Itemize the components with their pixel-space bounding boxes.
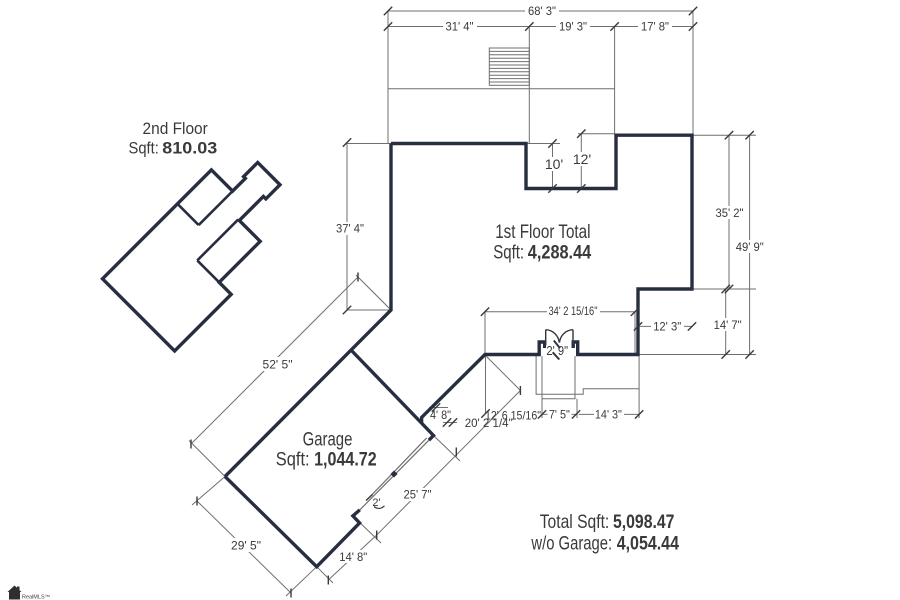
french door 2' 9" ticks (over label) bbox=[554, 341, 560, 349]
label 35' 2" bbox=[714, 206, 745, 219]
tick 14' 8" bbox=[327, 576, 329, 585]
dimension 37' 4" line bbox=[346, 143, 348, 311]
dimension 12' line bbox=[580, 134, 582, 189]
svg-text:19' 3": 19' 3" bbox=[559, 20, 587, 34]
garage door: thin double line bbox=[360, 438, 429, 510]
extension line x=529 through stairs bbox=[528, 27, 530, 144]
french door leaves and swing arcs bbox=[546, 330, 573, 344]
extension x=485.5 below wall bbox=[485, 355, 487, 414]
dimension 10' line bbox=[552, 144, 554, 189]
extension x=577 for 7' 5"/14' 3" bbox=[576, 399, 578, 418]
ticks 14' 3" bbox=[635, 410, 643, 418]
label 7' 5" bbox=[548, 409, 572, 421]
ticks 10' bbox=[548, 139, 556, 147]
interior wall lines bbox=[159, 170, 271, 282]
ticks 37' 4" bbox=[343, 138, 351, 146]
svg-text:4' 8": 4' 8" bbox=[430, 408, 451, 422]
label 25' 7" bbox=[402, 488, 434, 501]
ticks 25' 7" bbox=[455, 448, 457, 457]
label 14' 8" bbox=[338, 550, 370, 563]
extension x=542 for 7' 5" bbox=[541, 399, 543, 418]
label 29' 5" bbox=[228, 538, 264, 552]
extension from garage right corner bbox=[434, 436, 461, 462]
label 31' 4" bbox=[443, 20, 477, 33]
extension line x=614.6 bbox=[614, 27, 616, 134]
dimension 52' 5" line bbox=[191, 277, 358, 444]
ticks 35' 2" bbox=[725, 131, 733, 139]
dimension 14' 7" line bbox=[725, 289, 727, 355]
svg-text:17' 8": 17' 8" bbox=[641, 20, 669, 34]
ticks 29' 5" bbox=[196, 497, 198, 506]
ticks row2 bbox=[384, 22, 392, 30]
ticks 12' bbox=[577, 130, 585, 138]
label 68' 3" bbox=[525, 4, 559, 17]
stairs hatch bbox=[489, 48, 529, 85]
extension y=143.5 for 10' dim bbox=[526, 143, 560, 145]
tick end of x=485.5 ext bbox=[481, 409, 489, 417]
label 14' 7" bbox=[712, 318, 743, 331]
label 34' 2 15/16" bbox=[547, 305, 600, 317]
label 37' 4" bbox=[334, 222, 366, 235]
extension line left x=388 bbox=[387, 11, 389, 144]
label 52' 5" bbox=[258, 357, 296, 371]
svg-text:31' 4": 31' 4" bbox=[446, 20, 474, 34]
extension line right x=693 bbox=[692, 11, 694, 135]
patio outline below doors bbox=[536, 356, 639, 394]
extension 29' 5" lower from garage bottom corner bbox=[286, 567, 317, 596]
extension y=289 right bbox=[692, 288, 756, 290]
dimension 29' 5" line bbox=[197, 501, 291, 593]
ticks 49' 9" bbox=[745, 131, 753, 139]
svg-text:1st Floor Total: 1st Floor Total bbox=[495, 221, 590, 243]
dimension 35' 2" line bbox=[728, 135, 730, 289]
svg-text:RealMLS™: RealMLS™ bbox=[22, 595, 50, 600]
svg-text:Sqft:: Sqft: bbox=[493, 241, 524, 263]
extension y=354.5 right bbox=[638, 354, 756, 356]
ticks 34' 2 15/16" bbox=[481, 308, 489, 316]
svg-text:14' 7": 14' 7" bbox=[714, 318, 742, 332]
roof overhang line y=88.8 bbox=[388, 88, 615, 90]
dimension 49' 9" line bbox=[749, 135, 751, 354]
svg-text:37' 4": 37' 4" bbox=[336, 222, 364, 236]
svg-text:12' 6 15/16": 12' 6 15/16" bbox=[485, 408, 541, 422]
svg-text:35' 2": 35' 2" bbox=[716, 206, 744, 220]
wall: hall/garage shared wall bbox=[352, 351, 434, 441]
walkway below doors bbox=[542, 356, 575, 399]
svg-text:25' 7": 25' 7" bbox=[404, 488, 432, 502]
extension x=485 bbox=[484, 312, 486, 355]
dimension 4' 8" small lines bbox=[429, 407, 448, 409]
wall: garage lower outline bbox=[225, 477, 360, 567]
extension 29' 5" upper from garage left corner bbox=[192, 477, 225, 506]
svg-text:14' 3": 14' 3" bbox=[595, 407, 622, 421]
extension y=143.5 left bbox=[347, 143, 391, 145]
garage door midpoint marker bbox=[390, 470, 397, 477]
svg-text:Garage: Garage bbox=[303, 430, 353, 451]
svg-text:4,054.44: 4,054.44 bbox=[617, 533, 679, 555]
svg-text:12': 12' bbox=[573, 151, 591, 167]
label 19' 3" bbox=[556, 20, 590, 33]
dimension 34' 2 15/16" line bbox=[485, 311, 635, 313]
dimension 12' 6 15/16" diagonal line bbox=[486, 356, 520, 390]
dimension 14' 8" diagonal line bbox=[328, 535, 376, 580]
garage door end tick bbox=[366, 495, 373, 501]
watermark logo bottom left bbox=[8, 586, 51, 600]
ticks 7' 5" bbox=[538, 410, 546, 418]
extension 52' 5" upper from corner bbox=[356, 275, 391, 310]
extension from garage bottom corner bbox=[317, 567, 333, 583]
svg-text:7' 5": 7' 5" bbox=[549, 407, 570, 421]
svg-text:4,288.44: 4,288.44 bbox=[528, 241, 592, 263]
label 10' bbox=[544, 157, 564, 171]
dimension 12' 3" line bbox=[638, 325, 692, 327]
svg-text:w/o Garage:: w/o Garage: bbox=[531, 533, 612, 555]
dimension 25' 7" diagonal line bbox=[377, 391, 521, 536]
label 17' 8" bbox=[638, 20, 672, 33]
svg-text:Total Sqft:: Total Sqft: bbox=[540, 511, 610, 533]
dimension 7' 5" line bbox=[542, 413, 576, 415]
ticks 52' 5" bbox=[357, 273, 359, 282]
wall: 1st floor main outline bbox=[225, 135, 692, 476]
svg-text:810.03: 810.03 bbox=[162, 139, 217, 158]
dimension row 31' 4" / 19' 3" / 17' 8" line bbox=[388, 26, 693, 28]
ticks 4' 8" bbox=[432, 403, 440, 411]
dimension 14' 3" line bbox=[579, 413, 640, 415]
extension y=310 left bbox=[347, 309, 391, 311]
svg-text:2': 2' bbox=[372, 497, 380, 509]
extension y=133.7 for 12' dim bbox=[578, 133, 615, 135]
svg-text:29' 5": 29' 5" bbox=[231, 539, 261, 553]
label 14' 3" bbox=[594, 409, 624, 421]
label 49' 9" bbox=[734, 240, 765, 253]
svg-text:10': 10' bbox=[545, 156, 563, 172]
svg-text:Sqft:: Sqft: bbox=[129, 139, 159, 158]
tick 12' 6 15/16" bbox=[519, 386, 521, 395]
extension 52' 5" lower from garage left corner bbox=[189, 441, 225, 477]
wall: 2nd floor outline bbox=[103, 143, 311, 351]
label 2' 9" bbox=[546, 346, 569, 356]
label 12' bbox=[572, 152, 592, 166]
ticks 68' 3" bbox=[384, 7, 392, 15]
dimension 68' 3" line bbox=[388, 10, 693, 12]
svg-text:12' 3": 12' 3" bbox=[653, 320, 681, 334]
svg-text:Sqft:: Sqft: bbox=[276, 450, 310, 471]
svg-text:2nd Floor: 2nd Floor bbox=[143, 119, 209, 138]
svg-text:68' 3": 68' 3" bbox=[528, 4, 556, 18]
svg-text:1,044.72: 1,044.72 bbox=[314, 450, 377, 471]
svg-text:14' 8": 14' 8" bbox=[339, 550, 367, 564]
label 12' 3" bbox=[651, 320, 684, 333]
svg-text:52' 5": 52' 5" bbox=[263, 358, 293, 372]
ticks 12' 3" bbox=[634, 322, 642, 330]
svg-text:34' 2 15/16": 34' 2 15/16" bbox=[549, 304, 598, 318]
extension x=635 bbox=[634, 312, 636, 355]
extension x=639 for 14' 3" bbox=[638, 389, 640, 418]
svg-text:5,098.47: 5,098.47 bbox=[613, 511, 674, 533]
extension y=135.2 top right bbox=[692, 134, 756, 136]
extension from garage door step bbox=[356, 519, 381, 543]
ticks 14' 7" bbox=[722, 285, 730, 293]
svg-text:49' 9": 49' 9" bbox=[736, 240, 764, 254]
